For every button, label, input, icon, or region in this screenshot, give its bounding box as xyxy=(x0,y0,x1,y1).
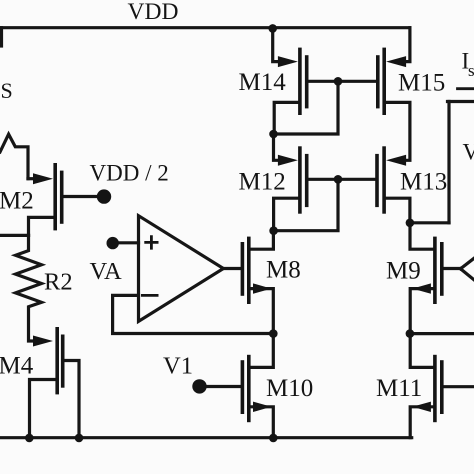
op-amp plus input lead xyxy=(113,241,139,244)
wire M10 drain up to feedback node xyxy=(251,334,274,368)
wire M13 source down to node xyxy=(386,198,410,223)
transistor M10 bars xyxy=(247,355,251,422)
junction dot M4 gate ground xyxy=(75,434,84,443)
svg-text:VA: VA xyxy=(90,258,123,285)
wire M15 source down to M13 drain xyxy=(386,102,410,160)
wire node to current-source box xyxy=(410,221,449,224)
transistor M4 bars xyxy=(55,327,59,394)
svg-text:M14: M14 xyxy=(239,69,287,96)
M2 drain arrow xyxy=(33,173,53,184)
svg-text:M4: M4 xyxy=(0,353,34,380)
junction dot M13 source node xyxy=(406,219,415,228)
transistor M12 bars xyxy=(298,146,302,213)
svg-text:s: s xyxy=(468,61,474,80)
svg-text:M13: M13 xyxy=(400,168,447,195)
wire M9 gate to op-amp2 apex xyxy=(444,267,461,270)
wire node to M12 drain xyxy=(274,134,279,160)
M10 source arrow xyxy=(253,402,271,412)
op-amp 2 (cut off at right edge) xyxy=(461,258,474,280)
M4 drain arrow xyxy=(33,336,53,347)
op-amp minus input feedback wire xyxy=(113,295,274,333)
M14 drain arrow xyxy=(278,56,298,67)
M13 drain arrow xyxy=(386,155,406,166)
transistor M8 bars xyxy=(247,237,251,304)
wire M12 gate to M13 gate xyxy=(308,178,375,181)
wire M14 gate to mirror node xyxy=(309,80,377,83)
svg-text:M12: M12 xyxy=(239,168,286,195)
resistor top-left (cut off) xyxy=(0,134,28,179)
junction dot M4 source ground xyxy=(25,434,34,443)
box top edge xyxy=(448,100,474,103)
terminal dot VA xyxy=(107,237,119,249)
junction dot M8 source node xyxy=(269,329,278,338)
node M2 source / R2 top, line to left edge xyxy=(0,234,29,237)
svg-text:M8: M8 xyxy=(266,257,301,284)
wire VDD to M14 drain xyxy=(273,28,278,62)
op-amp minus sign xyxy=(141,294,159,297)
wire M4 source to ground xyxy=(30,380,56,438)
wire bottom ground rail xyxy=(0,436,412,439)
transistor M14 bars xyxy=(298,48,302,115)
wire VDD rail xyxy=(0,26,410,29)
wire M8 source down to feedback node xyxy=(251,289,274,334)
svg-text:M9: M9 xyxy=(386,258,421,285)
wire right node to right edge xyxy=(410,332,474,335)
transistor M9 bars xyxy=(433,237,437,304)
svg-text:M2: M2 xyxy=(0,188,34,215)
svg-text:M11: M11 xyxy=(376,375,422,402)
op-amp U1 triangle xyxy=(139,216,224,322)
M15 drain arrow xyxy=(386,56,406,67)
wire M2 gate lead to VDD/2 terminal xyxy=(64,195,101,198)
terminal dot VDD/2 xyxy=(97,189,111,203)
junction dot M10 ground xyxy=(269,434,278,443)
junction dot M12 source node xyxy=(269,226,278,235)
svg-text:M10: M10 xyxy=(266,375,313,402)
junction dot M12/M13 gates xyxy=(334,175,343,184)
wire gate tie M14-M15 down to M12 drain node xyxy=(274,81,339,134)
wire M4 gate to ground xyxy=(65,361,80,438)
svg-text:V1: V1 xyxy=(163,353,193,380)
transistor M11 bars xyxy=(433,355,437,422)
junction dot VDD/M14 xyxy=(268,24,277,33)
op-amp plus sign xyxy=(144,235,158,249)
resistor R2 xyxy=(16,235,42,341)
M8 source arrow xyxy=(253,283,271,293)
transistor M15 bars xyxy=(382,48,386,115)
terminal dot V1 xyxy=(192,379,206,393)
junction dot M9 source node xyxy=(406,329,415,338)
svg-text:S: S xyxy=(1,78,13,103)
wire M10 source to ground xyxy=(251,407,274,438)
svg-text:M15: M15 xyxy=(398,70,445,97)
wire M9 drain up to node xyxy=(410,223,433,249)
transistor M2 bars xyxy=(53,163,57,230)
wire op-amp output to M8 gate xyxy=(223,267,240,270)
svg-text:VDD: VDD xyxy=(128,0,179,25)
wire M2 source xyxy=(29,217,54,235)
transistor M13 bars xyxy=(382,146,386,213)
M12 drain arrow xyxy=(278,155,298,166)
box left edge xyxy=(447,102,450,223)
wire M9 source down to node xyxy=(410,289,433,334)
wire gate tie M12-M13 down to M8 drain node xyxy=(274,179,338,230)
wire V1 terminal to M10 gate xyxy=(200,385,241,388)
junction dot M14 source node xyxy=(269,130,278,139)
M11 source arrow xyxy=(412,402,431,412)
M9 source arrow xyxy=(412,283,431,293)
wire M12 source down to node xyxy=(274,198,298,231)
junction dot M14/M15 gates xyxy=(334,77,343,86)
I_S label underline wire xyxy=(458,87,474,90)
wire VDD to M15 drain xyxy=(406,28,410,62)
wire M8 drain up to node xyxy=(251,231,274,250)
wire M11 source to ground xyxy=(410,407,433,438)
svg-text:VDD / 2: VDD / 2 xyxy=(90,161,169,186)
svg-text:V: V xyxy=(463,140,474,165)
wire M11 drain up to node xyxy=(410,334,433,368)
wire M2 drain shaft xyxy=(28,177,36,180)
wire left-edge stub xyxy=(0,28,3,46)
wire M11 gate to right edge xyxy=(444,385,474,388)
wire M14 source down to node xyxy=(274,102,298,134)
svg-text:R2: R2 xyxy=(44,269,73,296)
